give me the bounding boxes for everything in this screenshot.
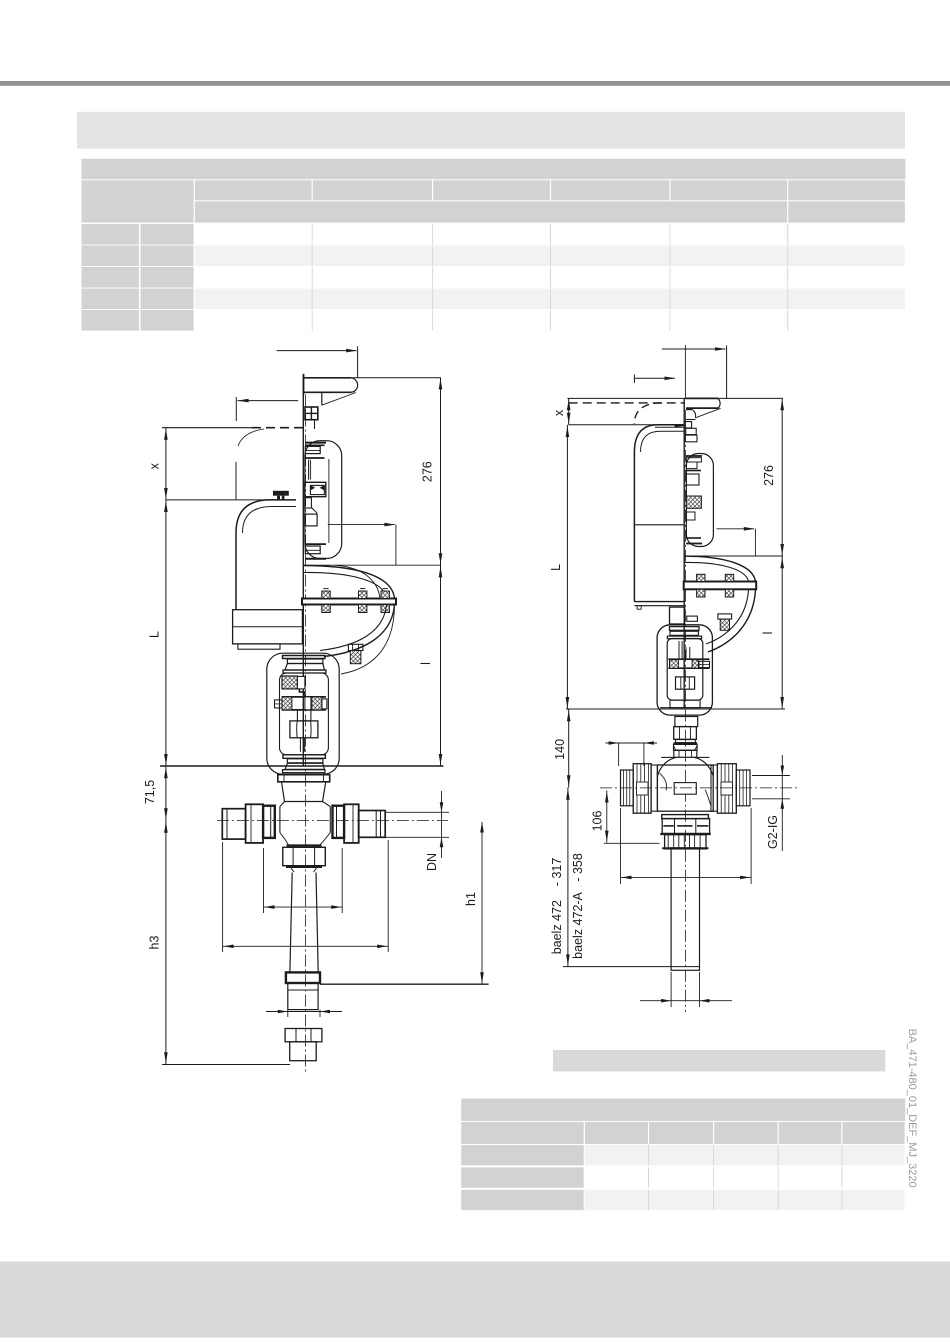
- left drawing: bell top plate 2: [287, 659, 323, 664]
- left drawing: stem block: [297, 710, 311, 721]
- right drawing: air connection bolt: [718, 614, 732, 619]
- left drawing: bell top plate 1: [283, 656, 325, 659]
- right drawing: cross bolt right pin: [699, 661, 710, 667]
- right drawing: pipe bottom dim: [670, 972, 672, 1007]
- right drawing: dome step line: [634, 524, 684, 526]
- top table header row 3 last cell: [788, 201, 905, 222]
- left drawing: tail pipe taper: [290, 873, 318, 972]
- left drawing: bell inner body: [280, 673, 329, 755]
- svg-text:L: L: [148, 631, 162, 638]
- right drawing: bottom port flange: [662, 815, 709, 819]
- left drawing: cross bolt right pin: [322, 699, 327, 709]
- right drawing: neck side tab: [687, 616, 698, 621]
- left drawing: bell housing capsule: [267, 653, 339, 774]
- svg-text:L: L: [549, 564, 563, 571]
- left drawing: raised dome top line solid then dashed: [162, 427, 252, 429]
- right drawing: horizontal centerline dash-dot: [600, 787, 800, 789]
- right drawing: x bottom extension / dome top: [569, 424, 684, 426]
- left drawing: horizontal centerline dash-dot: [217, 820, 448, 822]
- left drawing: stem offset zigzag: [299, 689, 305, 697]
- left drawing: spring housing bottom flange stack: [305, 543, 326, 545]
- right drawing: small block below: [686, 512, 695, 520]
- right drawing: left union nut ribbed: [633, 764, 651, 814]
- left drawing: spring housing capsule right: [305, 441, 342, 559]
- left drawing: l dim vertical: [440, 565, 442, 766]
- left drawing: valve body left flange: [263, 806, 275, 838]
- left drawing: stem top nut: [305, 407, 318, 420]
- right drawing: nameplate: [674, 783, 696, 795]
- svg-text:h3: h3: [148, 936, 162, 950]
- right drawing: clamp hatched block: [686, 496, 701, 508]
- left drawing: bell bottom plate 2: [287, 759, 323, 763]
- svg-text:DN: DN: [425, 853, 439, 871]
- left drawing: actuator dome outline: [236, 500, 296, 610]
- right drawing: raised dome dashed line: [569, 402, 685, 404]
- left drawing: x dim bottom extension line: [166, 499, 296, 501]
- right drawing: spring housing mid block: [686, 474, 699, 485]
- right drawing: left union flange: [651, 765, 657, 811]
- right drawing: mid leader arrow: [717, 528, 755, 530]
- left drawing: raised dome corner arc thin: [238, 429, 264, 446]
- right drawing: bell housing capsule: [657, 625, 712, 715]
- left drawing: bell wide plate: [283, 670, 326, 673]
- right drawing: left ribbed cap: [621, 770, 634, 806]
- svg-text:l: l: [419, 662, 433, 665]
- left drawing: plate gusset: [321, 392, 323, 405]
- bottom title bar: [553, 1050, 885, 1071]
- left drawing: DN dim: [386, 811, 450, 813]
- right drawing: union small dim: [618, 743, 620, 766]
- svg-text:71,5: 71,5: [143, 780, 157, 804]
- left drawing: end hex fitting: [285, 1029, 322, 1042]
- left drawing: bell bottom wide plate: [283, 770, 325, 773]
- right drawing: top stroke dimension line with arrow: [662, 348, 726, 350]
- left drawing: left union nut: [246, 804, 264, 843]
- right drawing: heavy collar line: [674, 742, 698, 744]
- left drawing: yoke flange bar: [302, 599, 396, 605]
- left drawing: x dim vertical with arrows: [165, 428, 167, 766]
- left drawing: 71,5 dim: [165, 766, 167, 821]
- right drawing: actuator face vertical: [683, 398, 685, 709]
- svg-text:baelz 472-A - 358: baelz 472-A - 358: [571, 853, 585, 959]
- left drawing: valve body shoulders and sides: [279, 807, 281, 833]
- left drawing: heavy base line: [160, 765, 444, 767]
- svg-text:baelz 472 - 317: baelz 472 - 317: [550, 858, 564, 955]
- left drawing: yoke top line: [303, 564, 441, 566]
- right drawing: bell top plates: [670, 627, 700, 631]
- left drawing: cross bolt left pin: [275, 700, 283, 708]
- svg-text:276: 276: [762, 465, 776, 486]
- right drawing: stem clamp lines: [678, 641, 680, 659]
- right drawing: valve body outline: [657, 757, 713, 776]
- right drawing: centerline extension above plate: [684, 345, 686, 398]
- left drawing: positioner grey box: [233, 610, 303, 644]
- left drawing: valve body right flange: [333, 806, 345, 838]
- left drawing: stem below nut: [299, 738, 301, 752]
- top table header band row 1: [82, 159, 906, 180]
- left drawing: mounting plate: [303, 374, 305, 395]
- left drawing: tail coupling heavy: [286, 972, 320, 983]
- right drawing: stem washer stack: [685, 422, 691, 428]
- right drawing: x dim: [568, 398, 570, 425]
- left drawing: h1 bottom reference line: [320, 983, 489, 985]
- left drawing: yoke lower arcs: [324, 605, 395, 657]
- right drawing: 106 bottom extension: [604, 842, 660, 844]
- left drawing: inner width dim: [263, 848, 265, 913]
- right drawing: bell inner body: [667, 639, 703, 701]
- left drawing: bonnet neck taper: [282, 782, 326, 802]
- right drawing: mounting plate: [685, 397, 718, 399]
- left drawing: tail pipe small dim: [287, 1010, 289, 1017]
- left drawing: tail lower tube: [288, 983, 318, 1010]
- left drawing: right pipe stub: [359, 811, 386, 838]
- svg-text:106: 106: [591, 811, 605, 832]
- left drawing: bell bottom skirt: [285, 763, 324, 769]
- right drawing: yoke lower arcs: [708, 589, 756, 652]
- right drawing: dome bottom lines: [634, 601, 683, 603]
- left drawing: actuator face vertical line: [302, 377, 304, 766]
- left drawing: h3 dim: [165, 821, 167, 1065]
- right drawing: bottom port nut block: [662, 819, 709, 834]
- right drawing: 106 dim: [606, 791, 608, 843]
- svg-text:h1: h1: [464, 892, 478, 906]
- right drawing: spring housing capsule: [686, 454, 713, 547]
- left drawing: outer width dim: [222, 842, 224, 952]
- left drawing: dome raised-position arrow dim: [238, 400, 299, 402]
- top table data rows: [82, 224, 139, 245]
- top table header left merged cell: [82, 180, 194, 222]
- right drawing: hex adapter: [674, 727, 697, 740]
- right drawing: bottom ribbed union: [665, 835, 706, 849]
- right drawing: bottom pipe: [671, 848, 699, 970]
- left drawing: bell top skirt: [285, 664, 324, 671]
- right drawing: bonnet neck: [670, 607, 685, 624]
- svg-text:140: 140: [553, 739, 567, 760]
- left drawing: h1 dim: [481, 822, 483, 984]
- right drawing: G2-IG dim: [752, 775, 790, 777]
- left drawing: bell bottom plate 1: [283, 755, 325, 759]
- right drawing: plate gusset: [686, 408, 693, 410]
- right drawing: right union flange: [711, 765, 717, 811]
- right drawing: ring: [676, 740, 696, 743]
- right drawing: top port: [674, 750, 697, 757]
- right drawing: stem hex nut: [676, 677, 695, 689]
- left drawing: spring housing small blocks: [305, 498, 312, 508]
- right drawing: yoke flange bolts: [697, 574, 705, 581]
- right drawing: plate top line / extensions: [567, 397, 783, 399]
- svg-text:276: 276: [421, 461, 435, 482]
- right drawing: stem below bell: [675, 717, 698, 727]
- right drawing: baelz dim vertical: [567, 788, 569, 967]
- right drawing: yoke flange bar: [684, 582, 757, 590]
- right drawing: L/140 reference line: [566, 708, 785, 710]
- right drawing: right ribbed cap: [736, 770, 750, 806]
- right drawing: body flow arcs: [660, 773, 667, 790]
- right drawing: cross bolt bar: [668, 658, 709, 660]
- left drawing: h3 bottom reference line: [162, 1064, 290, 1066]
- right drawing: l dim: [781, 556, 783, 709]
- svg-text:G2-IG: G2-IG: [766, 815, 780, 849]
- right drawing: yoke upper arcs: [684, 556, 755, 581]
- left drawing: bottom port hex: [283, 847, 326, 865]
- svg-text:x: x: [552, 409, 566, 416]
- left drawing: 276 dim vertical: [440, 377, 442, 565]
- left drawing: mid leader arrow to diaphragm: [328, 524, 395, 526]
- footer band: [0, 1262, 950, 1338]
- left drawing: stem clamp hatched block: [282, 676, 297, 689]
- svg-text:l: l: [761, 632, 775, 635]
- right drawing: bottom port heavy line: [660, 833, 711, 835]
- right drawing: baelz reference line: [563, 966, 700, 968]
- right drawing: overall width dim: [620, 808, 622, 884]
- top table header row 2 cells: [195, 180, 312, 200]
- left drawing: air connection bolt: [348, 644, 363, 650]
- left drawing: valve body shoulders: [280, 802, 330, 807]
- left drawing: cross bolt bar: [282, 696, 326, 698]
- right drawing: yoke top line: [684, 555, 783, 557]
- title banner: [77, 112, 905, 149]
- right drawing: 140 dim: [568, 709, 570, 788]
- svg-text:BA_471-480_01_DEF_MJ_3220: BA_471-480_01_DEF_MJ_3220: [906, 1029, 918, 1188]
- top grey rule: [0, 81, 950, 86]
- left drawing: spring housing top flange stack: [305, 442, 326, 444]
- left drawing: stem hex nut: [290, 721, 318, 738]
- right drawing: 276 dim: [781, 398, 783, 556]
- left drawing: top stroke dimension line with arrow: [277, 350, 357, 352]
- left drawing: spring tube lines: [308, 460, 310, 480]
- right drawing: L dim: [566, 425, 568, 709]
- right drawing: bell bottom flange: [670, 700, 700, 708]
- left drawing: vertical centerline dash-dot: [305, 395, 307, 1073]
- left drawing: T-screw on dome: [273, 491, 289, 496]
- left drawing: yoke upper arcs: [303, 566, 394, 599]
- left drawing: spring housing mid nut: [305, 482, 326, 496]
- right drawing: actuator dome outline: [634, 425, 684, 602]
- left drawing: valve bonnet flange: [278, 775, 330, 782]
- bottom table: [461, 1099, 905, 1121]
- top table header row 3 merged band: [195, 201, 787, 222]
- left drawing: bottom port bottom heavy line: [286, 866, 322, 868]
- left drawing: left pipe stub: [222, 809, 245, 839]
- svg-text:x: x: [148, 462, 162, 469]
- left drawing: right union nut: [344, 804, 359, 843]
- right drawing: spring housing top plates: [686, 458, 701, 462]
- right drawing: small hex: [674, 744, 698, 750]
- left drawing: mounting plate top line / 276 extension: [304, 377, 441, 379]
- left drawing: yoke flange bolts: [322, 591, 330, 599]
- right drawing: dashed raised dome arc: [634, 403, 662, 424]
- left drawing: bottom port top heavy line: [287, 844, 322, 846]
- right drawing: second stroke arrow: [634, 377, 674, 379]
- right drawing: vertical centerline dash-dot: [684, 410, 686, 1012]
- right drawing: right union nut ribbed: [717, 764, 736, 814]
